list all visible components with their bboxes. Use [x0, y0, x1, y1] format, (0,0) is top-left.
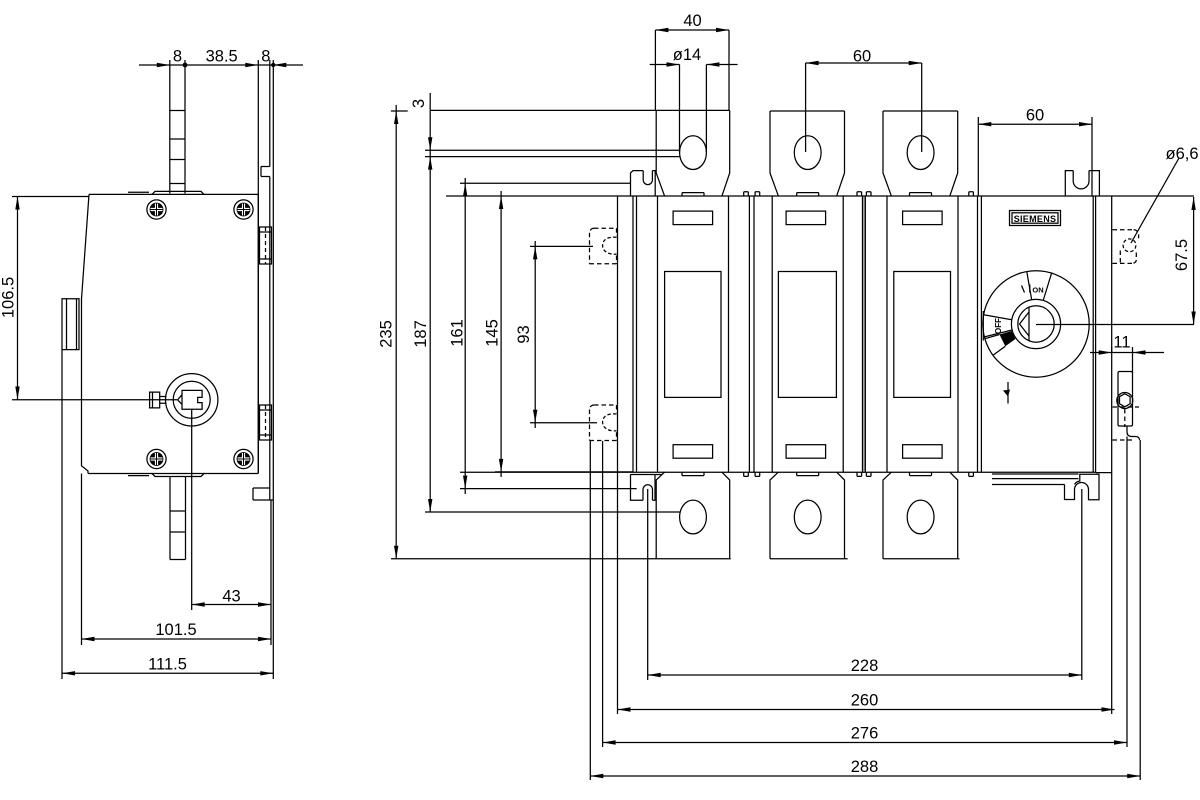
body bottom plateau — [128, 474, 204, 477]
pole 1 label window bottom — [673, 445, 713, 459]
screw top-left — [147, 200, 166, 219]
pole 3 fuse window — [894, 272, 951, 398]
arrows dim67.5 — [1191, 197, 1195, 325]
dim 187 bottom leader — [425, 511, 680, 513]
svg-text:8: 8 — [261, 47, 270, 65]
arrow dim8 right outside — [273, 63, 286, 67]
arrows dim3 outside — [428, 137, 432, 169]
arrows dim60 right — [978, 122, 1092, 126]
drive shaft circles — [166, 374, 218, 426]
bottom edge small paired tabs — [744, 472, 974, 476]
position symbol below handle — [1007, 382, 1009, 404]
svg-text:60: 60 — [853, 48, 871, 66]
rotary handle ring — [1011, 299, 1060, 348]
pole boundary 1-2 — [749, 196, 754, 472]
arrows dim o14 outside — [667, 62, 720, 66]
top edge tabs under lugs — [682, 193, 932, 196]
handle centre leader to 67.5 dim — [1036, 324, 1194, 326]
top lug 2 hole — [794, 136, 821, 170]
bottom terminal busbar — [170, 477, 186, 560]
pole 2 label window top — [786, 211, 826, 225]
ON indicator tick — [1022, 285, 1030, 293]
pole 2 label window bottom — [786, 445, 826, 459]
top terminal busbar — [170, 60, 185, 194]
hidden keyhole slot right (dashed) — [1113, 230, 1139, 264]
svg-text:8: 8 — [173, 47, 182, 65]
screw bottom-right — [234, 449, 253, 468]
shaft square — [178, 390, 203, 409]
top edge small paired tabs — [744, 192, 974, 196]
body rear edge line — [257, 60, 259, 474]
hidden keyhole slot left-upper (dashed) — [590, 228, 617, 263]
svg-text:288: 288 — [851, 758, 879, 776]
arrows dim228 — [648, 673, 1082, 677]
keyhole mounting tab top-right — [1065, 171, 1099, 196]
svg-text:161: 161 — [449, 319, 467, 347]
body bottom line — [460, 471, 1112, 473]
screw bottom-left — [147, 449, 166, 468]
mounting plate (side, right) — [270, 60, 274, 501]
pole boundary 3-handle — [978, 196, 982, 472]
dim 235 line — [395, 105, 397, 559]
dim o14 — [650, 65, 738, 153]
svg-text:OFF: OFF — [994, 318, 1003, 334]
rear plate left edge — [617, 196, 619, 714]
trip wedge rays — [985, 335, 1005, 356]
svg-text:276: 276 — [851, 725, 879, 743]
dim 106.5 line and leaders — [12, 197, 177, 400]
plate bottom keyhole tab fold — [253, 488, 273, 500]
pole boundary 2-3 — [863, 196, 866, 472]
svg-text:11: 11 — [1113, 334, 1130, 352]
dim 3 and 187 shared line — [429, 93, 431, 512]
dim 228 line — [648, 674, 1082, 676]
arrows dim93 — [533, 246, 537, 422]
dim 235 bottom leader / lug bottom plane — [391, 558, 960, 560]
svg-text:235: 235 — [378, 320, 396, 348]
dim 260 line — [618, 709, 1115, 711]
bottom lug 3 hole — [907, 500, 934, 534]
svg-text:SIEMENS: SIEMENS — [1014, 214, 1057, 224]
shaft screw head — [150, 392, 167, 408]
hinge block lower — [260, 405, 272, 440]
svg-text:60: 60 — [1026, 107, 1044, 125]
bottom lug 2 — [770, 472, 845, 559]
terminal top plane leader line — [391, 109, 730, 112]
pole 3 label window bottom — [903, 445, 943, 459]
arrows dim43 — [192, 602, 271, 606]
pole 2 fuse window — [778, 272, 836, 398]
svg-text:ø14: ø14 — [673, 46, 701, 64]
arrows dim111.5 — [62, 671, 273, 675]
bottom ledge right section — [992, 474, 1079, 485]
arrows dim276 — [603, 740, 1127, 744]
dim 60 right — [978, 117, 1092, 196]
svg-text:228: 228 — [851, 657, 879, 675]
arrows dim288 — [590, 774, 1140, 778]
rotary handle inner circle — [1018, 306, 1054, 342]
pole 1 fuse window — [665, 272, 721, 398]
arrows dim106.5 — [15, 197, 19, 400]
svg-text:260: 260 — [851, 691, 879, 709]
pole 1 inner verticals — [658, 196, 729, 472]
dim 93 line and leaders — [530, 241, 597, 428]
dim 60 top — [806, 63, 922, 152]
svg-text:111.5: 111.5 — [148, 655, 187, 673]
front cover block (left protrusion) — [62, 299, 79, 350]
svg-text:40: 40 — [683, 12, 701, 30]
dim 40 — [655, 30, 729, 110]
dim 11 line — [1090, 347, 1164, 373]
OFF sector lines — [983, 311, 1012, 341]
rear plate right edge — [1111, 196, 1113, 714]
bottom edge tabs under lugs — [682, 472, 932, 475]
pole 2 inner verticals — [772, 196, 843, 472]
body left edge double — [633, 196, 637, 472]
arrows dim161 — [463, 183, 467, 488]
handle shaft chord and pointer triangle — [1020, 307, 1030, 341]
arrows dim235 — [394, 111, 398, 559]
dim 43 extension and line — [192, 409, 271, 645]
top lug 3 — [883, 111, 958, 196]
svg-text:187: 187 — [412, 320, 430, 348]
arrows dim40 — [655, 28, 729, 32]
right bracket screw tab — [1118, 372, 1133, 427]
mounting plate edge-on (3mm double line) — [425, 150, 680, 156]
arrows dim145 — [499, 196, 503, 472]
body top plateau — [128, 191, 204, 194]
svg-text:38.5: 38.5 — [206, 47, 238, 65]
pole 1 label window top — [673, 211, 713, 225]
top lug 1 — [656, 110, 730, 195]
bottom lug 1 — [656, 472, 730, 559]
arrow dim38.5 right — [245, 63, 258, 67]
svg-text:ON: ON — [1032, 286, 1043, 295]
arrow dim8 left — [157, 63, 170, 67]
dim 276 extensions and line — [603, 437, 1127, 748]
body top line — [446, 195, 1194, 197]
dim 288 extensions and line — [590, 440, 1140, 780]
right bracket screw — [1117, 393, 1133, 409]
plate top keyhole tab fold — [261, 167, 270, 177]
bottom lug 3 — [883, 472, 958, 559]
arrow dim187 bottom — [428, 499, 432, 512]
dim 101.5 extension and line — [82, 474, 272, 646]
right bracket hidden DIN profile (dashed) — [1113, 407, 1140, 440]
body outline — [82, 194, 259, 473]
svg-text:93: 93 — [515, 325, 533, 343]
svg-text:43: 43 — [222, 588, 240, 606]
right bracket foot — [1127, 426, 1140, 440]
dim 228 extensions — [648, 489, 1082, 680]
SIEMENS logo plate — [1010, 211, 1061, 226]
dim 67.5 line — [1193, 197, 1195, 325]
top lug 1 hole — [680, 136, 707, 170]
arrows dim101.5 — [82, 637, 272, 641]
screw top-right — [234, 200, 253, 219]
svg-text:101.5: 101.5 — [155, 621, 196, 639]
top lug 2 — [770, 111, 845, 196]
bottom lug 1 hole — [680, 500, 707, 534]
svg-text:ø6,6: ø6,6 — [1165, 145, 1198, 163]
pole 3 label window top — [903, 211, 943, 225]
keyhole mounting tab bottom-left — [631, 475, 663, 501]
dim 145 line and leaders — [495, 191, 633, 477]
keyhole mounting tab bottom-right — [1065, 474, 1100, 500]
keyhole mounting tab top-left — [631, 171, 656, 196]
dim 161 line and leaders — [460, 178, 637, 494]
arrows dim11 outside — [1099, 350, 1146, 354]
dim line 8/38.5/8 top — [139, 64, 303, 66]
bottom lug 2 hole — [794, 500, 821, 534]
hinge block upper — [260, 227, 272, 264]
arrows dim60 top — [806, 61, 922, 65]
rotary handle outer circle — [983, 271, 1089, 377]
pole 3 inner verticals — [887, 196, 958, 472]
trip wedge (filled) — [1000, 331, 1016, 346]
svg-text:3: 3 — [410, 99, 428, 108]
dim 111.5 extension and line — [62, 350, 273, 679]
dot dim8/38.5 — [183, 63, 188, 68]
hidden keyhole slot left-lower (dashed) — [590, 405, 617, 441]
svg-text:145: 145 — [484, 319, 502, 347]
arrows dim260 — [618, 707, 1115, 711]
ON sector lines — [1027, 272, 1052, 301]
svg-text:67.5: 67.5 — [1173, 239, 1191, 271]
o6,6 leader — [1131, 158, 1179, 243]
svg-text:106.5: 106.5 — [0, 277, 18, 318]
top lug 3 hole — [907, 136, 934, 170]
body right edge double — [1093, 196, 1095, 472]
